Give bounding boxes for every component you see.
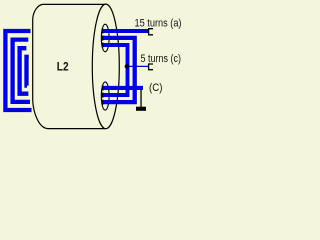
winding loop 2: [13, 40, 30, 102]
pin c terminal: [149, 64, 153, 70]
wire: thin tap lead to pin c (5 turns): [127, 65, 148, 67]
wire end ticks in bottom hole: [102, 85, 104, 90]
svg-text:5 turns (c): 5 turns (c): [141, 53, 182, 65]
svg-text:15 turns (a): 15 turns (a): [135, 18, 182, 30]
wire: top tap to pin a (15 turns): [103, 29, 149, 33]
svg-text:(C): (C): [149, 82, 163, 94]
junction dot on tap: [125, 64, 130, 69]
core top hole: [101, 24, 109, 52]
winding loop 1 (outer, left side): [5, 31, 31, 110]
wire: bottom tap to terminal C: [103, 86, 144, 90]
ground lead: [140, 90, 141, 107]
wire: winding turn through holes (outer right loop): [103, 38, 135, 102]
core bottom hole: [101, 82, 109, 110]
wire: winding turn through holes (inner right loop): [103, 45, 128, 95]
winding loop 4 (inner): [27, 57, 29, 86]
svg-text:L2: L2: [57, 60, 69, 74]
ground bar: [136, 107, 146, 111]
core right face ellipse: [92, 4, 119, 129]
winding loop 3: [20, 48, 29, 93]
wire end ticks in top hole: [102, 28, 104, 33]
inductor L2 core body (cylinder silhouette): [33, 4, 106, 128]
pin a terminal: [149, 29, 153, 35]
